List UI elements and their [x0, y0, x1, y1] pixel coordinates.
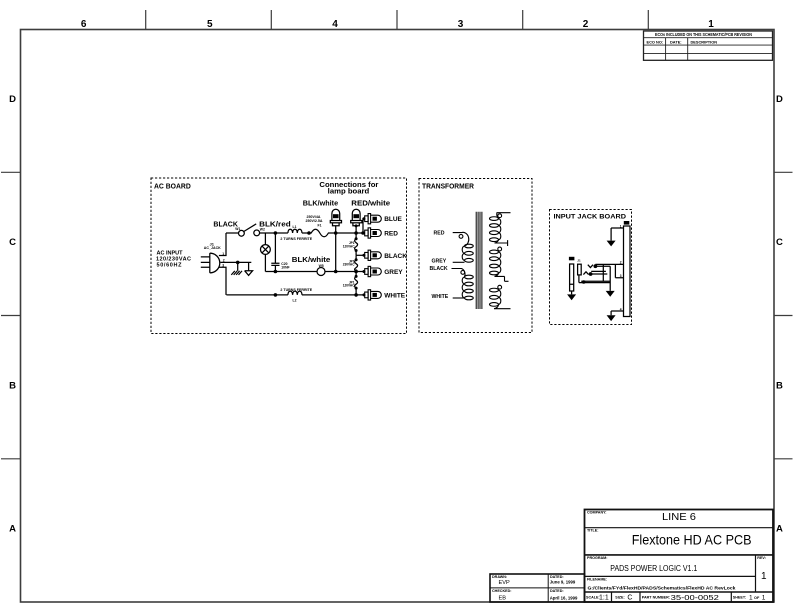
svg-text:BLACK: BLACK — [430, 266, 448, 272]
svg-text:ECOs INCLUDED ON THIS SCHEMATI: ECOs INCLUDED ON THIS SCHEMATIC/PCB REVI… — [655, 32, 752, 37]
svg-text:1: 1 — [749, 595, 753, 602]
svg-text:COMPANY:: COMPANY: — [587, 511, 607, 515]
svg-text:1: 1 — [620, 224, 622, 228]
svg-text:RED/white: RED/white — [351, 198, 390, 207]
svg-text:1: 1 — [222, 252, 224, 256]
svg-text:5: 5 — [207, 19, 213, 30]
svg-text:120/230VAC: 120/230VAC — [156, 256, 191, 262]
svg-text:W5: W5 — [319, 264, 324, 268]
svg-text:B: B — [776, 380, 783, 391]
svg-text:3: 3 — [222, 263, 224, 267]
svg-text:DRAWN:: DRAWN: — [492, 575, 507, 579]
svg-text:2 TURNS FERRITE: 2 TURNS FERRITE — [280, 288, 312, 292]
svg-text:April 16, 1999: April 16, 1999 — [550, 595, 578, 600]
svg-text:C: C — [627, 595, 632, 602]
svg-text:J1: J1 — [577, 259, 581, 263]
svg-text:lamp board: lamp board — [328, 187, 370, 196]
svg-text:PROGRAM:: PROGRAM: — [587, 556, 608, 560]
svg-text:SHEET:: SHEET: — [733, 595, 746, 599]
svg-text:WHITE: WHITE — [432, 294, 449, 300]
svg-text:BLUE: BLUE — [384, 216, 402, 223]
svg-text:B: B — [9, 380, 16, 391]
svg-text:35-00-0052: 35-00-0052 — [671, 593, 719, 602]
svg-text:L1: L1 — [293, 225, 297, 229]
svg-text:BLACK: BLACK — [213, 221, 238, 228]
svg-text:PADS POWER LOGIC V1.1: PADS POWER LOGIC V1.1 — [610, 563, 697, 573]
svg-text:WHITE: WHITE — [384, 292, 406, 299]
svg-text:D: D — [9, 94, 16, 105]
svg-text:230VAC: 230VAC — [343, 263, 356, 267]
svg-text:EB: EB — [499, 595, 507, 601]
svg-text:June 9, 1999: June 9, 1999 — [550, 580, 576, 585]
svg-text:CHECKED:: CHECKED: — [492, 589, 511, 593]
svg-text:RED: RED — [384, 231, 398, 238]
svg-text:L2: L2 — [293, 299, 297, 303]
svg-text:1: 1 — [708, 19, 714, 30]
svg-text:A: A — [9, 524, 16, 535]
svg-text:2: 2 — [583, 19, 589, 30]
svg-text:DATED:: DATED: — [550, 589, 564, 593]
svg-text:G:/Clients/FYd/FlexHD/PADS/Sch: G:/Clients/FYd/FlexHD/PADS/Schematics/Fl… — [588, 586, 736, 591]
svg-text:A: A — [776, 524, 783, 535]
svg-text:3: 3 — [620, 274, 622, 278]
svg-text:D: D — [776, 94, 783, 105]
svg-text:120VAC: 120VAC — [343, 284, 356, 288]
svg-text:1: 1 — [762, 595, 766, 602]
svg-text:AC BOARD: AC BOARD — [154, 184, 191, 191]
svg-text:DESCRIPTION: DESCRIPTION — [691, 40, 718, 45]
svg-text:2 TURNS FERRITE: 2 TURNS FERRITE — [280, 237, 312, 241]
svg-text:GREY: GREY — [432, 259, 447, 265]
svg-text:GREY: GREY — [384, 269, 403, 276]
svg-text:AC INPUT: AC INPUT — [157, 250, 184, 256]
svg-text:3: 3 — [458, 19, 464, 30]
svg-text:BLACK: BLACK — [384, 253, 407, 260]
svg-text:50/60HZ: 50/60HZ — [157, 263, 183, 269]
svg-text:LINE 6: LINE 6 — [662, 511, 696, 523]
svg-text:F1: F1 — [318, 224, 322, 228]
svg-text:RED: RED — [434, 231, 445, 237]
svg-text:1:1: 1:1 — [599, 595, 609, 602]
svg-text:DATED:: DATED: — [550, 575, 564, 579]
svg-text:10NF: 10NF — [281, 266, 289, 270]
svg-text:2: 2 — [223, 259, 225, 263]
svg-text:W2: W2 — [260, 227, 265, 231]
svg-text:BLK/white: BLK/white — [303, 198, 338, 207]
svg-text:FILENAME:: FILENAME: — [587, 578, 607, 582]
svg-text:EVP: EVP — [499, 580, 510, 586]
svg-text:4: 4 — [620, 307, 622, 311]
svg-text:2: 2 — [620, 261, 622, 265]
svg-text:TRANSFORMER: TRANSFORMER — [422, 184, 474, 191]
svg-text:TITLE:: TITLE: — [587, 529, 598, 533]
svg-text:C: C — [9, 237, 16, 248]
svg-text:250V/2.5A: 250V/2.5A — [306, 219, 323, 223]
svg-text:1: 1 — [761, 571, 767, 582]
svg-text:SCALE:: SCALE: — [586, 595, 600, 599]
svg-text:AC_JACK: AC_JACK — [204, 246, 221, 250]
svg-text:OF: OF — [754, 596, 760, 600]
svg-text:Flextone HD AC PCB: Flextone HD AC PCB — [632, 532, 752, 547]
svg-text:6: 6 — [81, 19, 87, 30]
svg-text:BLK/white: BLK/white — [292, 257, 331, 264]
svg-text:REV:: REV: — [757, 556, 766, 560]
svg-text:ECO NO:: ECO NO: — [647, 40, 664, 45]
svg-text:DATE:: DATE: — [670, 40, 682, 45]
svg-text:4: 4 — [332, 19, 338, 30]
svg-text:SIZE:: SIZE: — [615, 595, 624, 599]
svg-text:C: C — [776, 237, 783, 248]
svg-text:120VAC: 120VAC — [343, 244, 356, 248]
svg-text:PART NUMBER:: PART NUMBER: — [642, 595, 670, 599]
svg-text:W1: W1 — [235, 227, 240, 231]
svg-text:INPUT JACK BOARD: INPUT JACK BOARD — [554, 214, 627, 221]
